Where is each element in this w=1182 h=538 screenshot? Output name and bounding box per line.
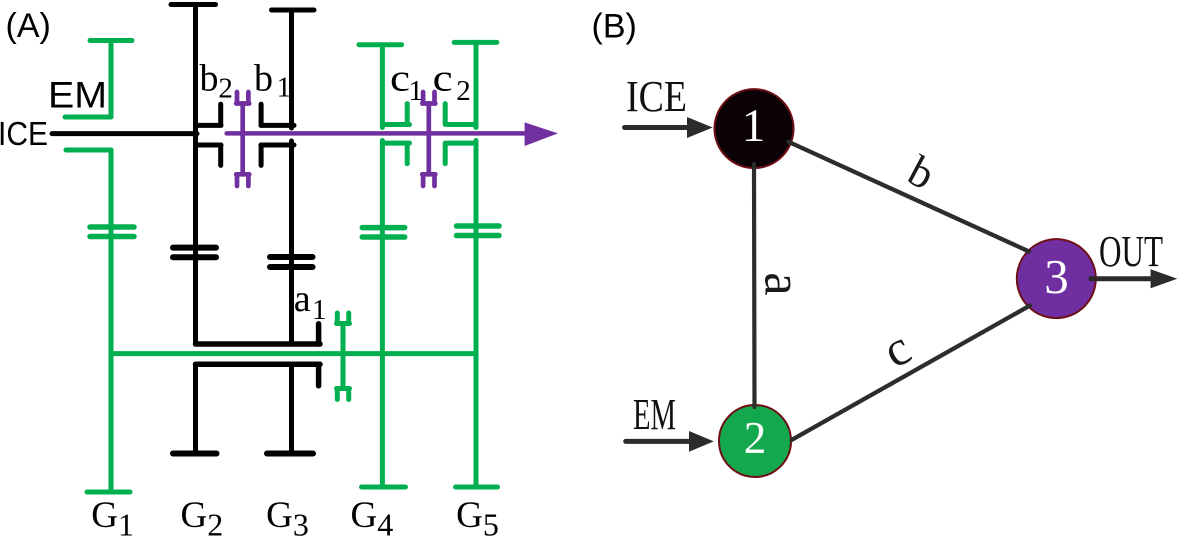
svg-text:ICE: ICE <box>626 72 687 121</box>
svg-text:b: b <box>254 58 273 100</box>
gear G3 mesh bar upper <box>270 254 313 260</box>
svg-text:a: a <box>294 278 311 320</box>
b1 jaw upper arm <box>261 123 294 128</box>
b1 jaw upper tooth <box>259 104 264 125</box>
svg-text:1: 1 <box>409 75 424 107</box>
G5 top T-bar <box>454 40 497 45</box>
G5 shaft vertical upper <box>474 42 479 127</box>
svg-text:2: 2 <box>456 75 471 107</box>
G4 shaft vertical upper <box>380 45 385 128</box>
clutch a jaw upper (black) <box>196 324 321 386</box>
clutch c2 jaw upper <box>448 122 476 127</box>
svg-text:OUT: OUT <box>1099 227 1163 276</box>
countershaft wire (green) <box>111 351 476 356</box>
node 3 circle (purple) <box>1017 239 1096 318</box>
svg-text:b: b <box>200 58 219 100</box>
b2 jaw lower tooth <box>218 145 223 165</box>
G3 top T-bar <box>272 8 315 13</box>
svg-text:c: c <box>390 58 410 100</box>
EM shaft / gear G1 shaft (green) <box>65 41 134 493</box>
node 1 circle (black) <box>715 89 794 168</box>
OUT arrow <box>1091 276 1152 281</box>
G2 top T-bar <box>171 2 216 7</box>
edge a (node1-node2) <box>752 164 757 407</box>
EM clutch lower arm <box>66 148 111 153</box>
clutch a jaw lower <box>196 362 321 368</box>
clutch b1 jaw (black, on G3 shaft) <box>261 104 294 165</box>
G2 shaft vertical upper <box>193 5 198 345</box>
b2 jaw upper tooth <box>218 104 223 125</box>
G4 bottom T-bar <box>362 485 406 490</box>
gear G3 shaft (black) <box>267 10 314 454</box>
gear G2 mesh bar lower <box>173 254 216 260</box>
gear G1 mesh bar upper <box>90 224 134 230</box>
G3 bottom T-bar <box>267 451 313 457</box>
synchronizer sleeve c (purple) <box>422 92 435 186</box>
EM input arrow <box>626 439 694 444</box>
EM clutch upper arm <box>65 115 111 120</box>
gear G2 shaft (black) <box>171 5 217 454</box>
svg-text:(B): (B) <box>592 8 637 46</box>
gear G3 mesh bar lower <box>270 264 313 270</box>
svg-text:G1: G1 <box>91 495 134 538</box>
svg-text:b: b <box>900 146 942 200</box>
gear G4 mesh bar upper <box>362 225 404 231</box>
b1 jaw lower tooth <box>259 145 264 165</box>
gear G5 mesh bar lower <box>457 233 500 239</box>
gear G1 mesh bar lower <box>90 234 134 240</box>
b2 jaw lower arm <box>197 143 221 148</box>
svg-text:EM: EM <box>633 390 676 439</box>
svg-text:G2: G2 <box>181 495 224 538</box>
G3 shaft vertical upper <box>289 10 294 128</box>
G1 shaft bottom T-bar <box>87 490 130 495</box>
svg-text:1: 1 <box>742 100 766 152</box>
EM shaft vertical upper <box>109 41 114 118</box>
ICE input shaft wire <box>52 131 197 136</box>
svg-text:c: c <box>873 319 919 379</box>
svg-text:ICE: ICE <box>0 115 48 152</box>
G5 shaft vertical lower <box>474 141 479 488</box>
b2 jaw upper arm <box>197 123 221 128</box>
edge c (node2-node3) <box>792 306 1031 441</box>
G4 top T-bar <box>359 42 402 47</box>
b1 jaw lower arm <box>261 143 294 148</box>
G2 bottom T-bar <box>173 451 217 457</box>
svg-text:G5: G5 <box>456 495 499 538</box>
svg-text:EM: EM <box>48 75 107 116</box>
edge b (node1-node3) <box>789 142 1030 252</box>
G3 shaft vertical middle <box>289 141 294 344</box>
gear G5 mesh bar upper <box>457 223 500 229</box>
svg-text:G3: G3 <box>266 495 309 538</box>
svg-text:1: 1 <box>277 72 292 104</box>
svg-text:a: a <box>753 272 811 296</box>
svg-text:G4: G4 <box>351 495 394 538</box>
G2 shaft vertical lower <box>193 364 198 453</box>
gear G4 shaft (green) <box>359 45 410 487</box>
clutch c1 jaw upper <box>382 122 409 127</box>
gear G4 mesh bar lower <box>362 234 404 240</box>
svg-text:(A): (A) <box>6 7 51 45</box>
G4 shaft vertical lower <box>380 141 385 488</box>
clutch b2 jaw (black, on G2 shaft) <box>197 104 221 165</box>
svg-text:2: 2 <box>218 73 233 105</box>
node 2 circle (green) <box>719 405 791 477</box>
gear G5 shaft (green) <box>445 42 499 487</box>
synchronizer sleeve b (purple) <box>236 92 249 186</box>
G5 bottom T-bar <box>456 485 498 490</box>
synchronizer sleeve a1 (green) <box>337 313 350 400</box>
G3 shaft vertical lower <box>289 364 294 453</box>
ICE input arrow <box>625 125 693 130</box>
gear G2 mesh bar upper <box>173 245 216 251</box>
svg-text:2: 2 <box>744 413 767 463</box>
clutch c2 jaw lower <box>448 141 476 146</box>
svg-text:1: 1 <box>312 294 327 326</box>
output shaft wire (purple) with arrow <box>227 131 531 136</box>
svg-text:c: c <box>433 58 453 100</box>
G1 shaft vertical <box>109 150 114 492</box>
clutch c1 jaw lower <box>382 141 409 146</box>
EM shaft top T-bar <box>90 38 132 43</box>
svg-text:3: 3 <box>1044 249 1069 304</box>
